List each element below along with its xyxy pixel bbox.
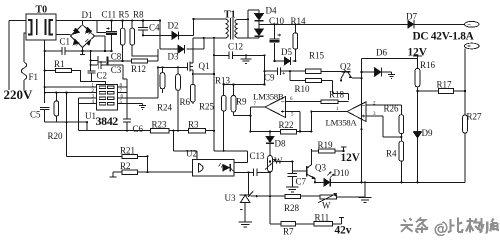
resistor R26 <box>399 115 404 134</box>
resistor R11 <box>314 222 332 226</box>
svg-text:U1: U1 <box>85 111 96 121</box>
resistor R8 <box>132 21 158 57</box>
ground U3 <box>238 222 252 227</box>
optocoupler U2 <box>193 159 234 176</box>
resistor R28 <box>285 194 301 198</box>
svg-text:12V: 12V <box>408 47 428 59</box>
svg-text:220V: 220V <box>4 87 34 102</box>
svg-text:R19: R19 <box>318 140 334 150</box>
resistor R25 <box>192 74 194 104</box>
resistor R10 <box>290 71 349 100</box>
svg-text:5: 5 <box>120 100 123 105</box>
resistor R15 <box>305 69 321 73</box>
output terminal 1 <box>464 21 479 27</box>
svg-text:R4: R4 <box>386 149 397 159</box>
svg-text:F1: F1 <box>29 72 39 82</box>
fuse F1 <box>21 62 27 80</box>
op-amp U4A LM358A <box>347 102 366 122</box>
svg-text:R26: R26 <box>384 104 400 114</box>
output terminal 2 <box>464 43 479 49</box>
mosfet Q1 <box>158 63 187 71</box>
svg-text:C10: C10 <box>269 16 285 26</box>
transformer T1 <box>226 19 228 38</box>
svg-text:D2: D2 <box>168 21 179 31</box>
svg-text:U3: U3 <box>225 193 236 203</box>
svg-text:DC 42V-1.8A: DC 42V-1.8A <box>413 31 475 43</box>
potentiometer W vertical <box>268 156 273 172</box>
diode D2 <box>143 19 194 35</box>
svg-text:LM358B: LM358B <box>253 92 284 102</box>
U1 right pin wires <box>118 87 143 110</box>
svg-text:R10: R10 <box>295 84 311 94</box>
svg-text:R20: R20 <box>48 131 64 141</box>
svg-text:3842: 3842 <box>96 114 119 128</box>
svg-text:D1: D1 <box>82 10 93 20</box>
svg-text:LM358A: LM358A <box>326 118 358 128</box>
transistor Q3 <box>306 166 308 177</box>
svg-text:7: 7 <box>120 89 123 94</box>
op-amp U4B LM358B <box>265 97 286 118</box>
svg-text:C7: C7 <box>296 177 307 187</box>
resistor R5 <box>122 21 124 62</box>
svg-text:R24: R24 <box>157 103 173 113</box>
diode D10 <box>324 178 330 186</box>
12V tick mid <box>341 147 347 151</box>
capacitor C13 <box>234 169 270 177</box>
svg-text:3: 3 <box>92 95 95 100</box>
diode D8 <box>269 132 271 137</box>
wire mains right to fuse <box>24 33 26 90</box>
resistor R24 <box>162 67 164 93</box>
resistor R22 <box>250 131 311 133</box>
svg-text:C2: C2 <box>97 71 108 81</box>
bridge bottom tap <box>80 48 85 56</box>
resistor R17 <box>418 90 466 92</box>
resistor R2 <box>122 170 137 174</box>
svg-text:C8: C8 <box>111 52 122 62</box>
svg-text:W: W <box>322 201 331 211</box>
svg-text:42v: 42v <box>335 225 352 237</box>
U1 left pin wires <box>45 87 97 103</box>
capacitor C5 <box>40 107 49 122</box>
wire mains left <box>9 21 26 91</box>
svg-text:R17: R17 <box>437 80 453 90</box>
svg-text:7: 7 <box>254 102 257 107</box>
svg-text:R1: R1 <box>54 59 65 69</box>
svg-text:U2: U2 <box>186 149 197 159</box>
wire 12V rail <box>362 59 418 183</box>
bottom rail <box>315 181 465 183</box>
wire Q1 source row <box>193 38 214 131</box>
IC U1 3842 <box>96 85 117 110</box>
svg-text:R22: R22 <box>279 120 294 130</box>
12V node tick <box>413 56 422 68</box>
svg-text:D5: D5 <box>281 47 292 57</box>
U2 phototransistor <box>223 164 230 171</box>
svg-text:C5: C5 <box>30 110 41 120</box>
svg-text:T0: T0 <box>36 5 48 16</box>
resistor R1 <box>45 71 106 86</box>
svg-text:R8: R8 <box>133 10 144 20</box>
svg-text:R6: R6 <box>180 97 191 107</box>
svg-text:R16: R16 <box>420 60 436 70</box>
svg-text:R21: R21 <box>120 145 135 155</box>
svg-text:Q3: Q3 <box>315 163 326 173</box>
diode D5 <box>265 55 296 71</box>
svg-text:R9: R9 <box>236 97 247 107</box>
wire R21 row <box>67 156 148 172</box>
svg-text:D6: D6 <box>376 48 387 58</box>
potentiometer W horizontal <box>320 195 337 199</box>
pin numbers op-amps <box>254 97 377 118</box>
T1 secondary leads <box>237 19 248 37</box>
wire row 84.6 <box>224 71 265 84</box>
svg-text:R25: R25 <box>199 102 215 112</box>
svg-text:C13: C13 <box>250 151 266 161</box>
T1 primary leads <box>193 19 226 38</box>
resistor R6 <box>177 67 179 130</box>
ground after D6 <box>388 72 395 78</box>
svg-text:8: 8 <box>120 84 123 89</box>
diode pair D4 <box>248 10 259 38</box>
resistor R19 <box>311 149 343 151</box>
wire bridge top jog <box>97 20 106 32</box>
U2 LED <box>199 163 203 173</box>
svg-text:D9: D9 <box>422 128 433 138</box>
diode D6 <box>362 71 392 73</box>
diode D9 <box>413 131 421 133</box>
resistor R18 <box>321 100 338 104</box>
resistor R16 <box>415 68 420 86</box>
U2 right top pin wire <box>234 151 248 163</box>
svg-text:C6: C6 <box>133 124 144 134</box>
svg-text:C4: C4 <box>149 23 160 33</box>
main output row y24.5 <box>259 23 408 25</box>
svg-text:5: 5 <box>291 113 294 118</box>
svg-text:T1: T1 <box>224 10 236 21</box>
wire mid vertical <box>66 93 68 157</box>
capacitor C3 <box>98 61 127 89</box>
ground right of W <box>359 182 372 202</box>
resistor R21 <box>122 154 137 158</box>
resistor R12 <box>132 59 148 63</box>
svg-text:C3: C3 <box>111 65 122 75</box>
svg-text:R12: R12 <box>131 64 146 74</box>
resistor R3 <box>189 129 206 133</box>
svg-text:R3: R3 <box>188 119 199 129</box>
U2 feed wires <box>173 111 247 159</box>
LM358A output wire <box>311 112 347 132</box>
svg-text:2: 2 <box>373 102 376 107</box>
node row U3-R28-W <box>251 195 285 197</box>
svg-text:R11: R11 <box>315 213 330 223</box>
svg-text:C9: C9 <box>264 73 275 83</box>
TL431 U3 <box>248 172 250 194</box>
resistor R9 <box>234 85 251 116</box>
resistor R4 <box>399 141 404 161</box>
svg-text:R18: R18 <box>329 90 345 100</box>
watermark <box>401 218 498 236</box>
svg-text:12V: 12V <box>341 152 361 164</box>
svg-text:D7: D7 <box>406 12 417 22</box>
ground near C12 <box>240 55 251 63</box>
capacitor C2 <box>87 71 95 81</box>
capacitor C6 <box>123 111 131 131</box>
resistor R7 <box>281 222 296 226</box>
LM358B output wire <box>250 107 265 132</box>
svg-text:W: W <box>274 156 283 166</box>
svg-text:R23: R23 <box>152 119 168 129</box>
capacitor C9 <box>265 67 306 75</box>
capacitor C11 electrolytic <box>106 20 117 51</box>
svg-text:R13: R13 <box>215 76 231 86</box>
svg-text:Q1: Q1 <box>199 61 210 71</box>
capacitor C4 <box>138 21 148 36</box>
capacitor C7 <box>288 174 297 188</box>
LM358B input wires <box>286 101 322 131</box>
U1 frame bottom row <box>78 130 150 132</box>
transformer T0 <box>26 14 56 40</box>
rail below T0 <box>44 40 46 103</box>
svg-text:C11: C11 <box>102 10 117 20</box>
svg-text:1: 1 <box>92 84 95 89</box>
svg-text:2: 2 <box>92 89 95 94</box>
gate drive wire U1 to Q1 <box>127 67 158 98</box>
wire wiper to Q3 base <box>276 162 292 174</box>
capacitor C1 <box>45 47 75 55</box>
svg-text:R14: R14 <box>291 16 307 26</box>
svg-text:Q2: Q2 <box>340 62 351 72</box>
wire T0 to bridge top <box>56 21 160 25</box>
svg-text:4: 4 <box>92 100 95 105</box>
resistor R20 <box>55 93 57 123</box>
svg-text:R5: R5 <box>119 10 130 20</box>
svg-text:D8: D8 <box>275 139 286 149</box>
wire T0 to bridge left <box>56 34 71 36</box>
resistor R23 <box>151 129 169 133</box>
pin numbers U1 <box>92 84 124 105</box>
LM358A input wires <box>366 105 401 137</box>
svg-text:D3: D3 <box>168 52 179 62</box>
diode bridge D1 <box>71 25 95 48</box>
svg-text:6: 6 <box>121 95 124 100</box>
R7 row <box>270 223 342 225</box>
ground C7 <box>286 187 298 192</box>
resistor R14 <box>294 24 296 61</box>
wire output2 down <box>464 49 466 183</box>
transistor Q2 <box>342 71 351 73</box>
wire row y50 <box>75 36 112 51</box>
resistor R13 <box>223 85 225 96</box>
svg-text:R2: R2 <box>120 161 131 171</box>
ground at U1 pin5 <box>139 104 146 110</box>
capacitor C10 electrolytic <box>270 24 280 61</box>
diode D3 <box>160 21 204 50</box>
svg-text:D10: D10 <box>334 168 350 178</box>
capacitor C8 <box>91 61 98 65</box>
capacitor C12 <box>214 51 265 59</box>
svg-text:R27: R27 <box>467 112 483 122</box>
C8 rail <box>90 51 92 71</box>
resistor R27 <box>463 115 468 133</box>
svg-text:D4: D4 <box>266 6 277 16</box>
svg-text:R15: R15 <box>309 51 325 61</box>
LED arrows D10 <box>327 172 333 178</box>
42v tick <box>339 217 344 223</box>
wire C5/R20 bottom row <box>45 98 87 131</box>
svg-text:R28: R28 <box>284 203 300 213</box>
svg-text:C1: C1 <box>60 37 71 47</box>
svg-text:C12: C12 <box>228 42 243 52</box>
svg-text:R7: R7 <box>283 227 294 237</box>
diode D7 <box>408 20 414 28</box>
